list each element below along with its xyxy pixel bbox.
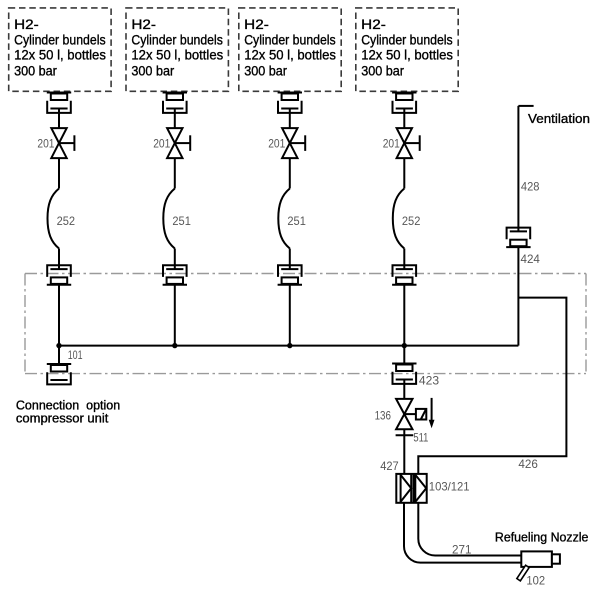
svg-text:511: 511 <box>413 431 428 445</box>
coupling (column 3 at boundary) <box>278 265 302 285</box>
valve 136 (actuated) <box>375 399 416 429</box>
svg-text:Cylinder bundels: Cylinder bundels <box>14 33 106 49</box>
wire: column 1 drop to manifold <box>58 285 60 346</box>
wire: coupling 423 to valve 136 <box>403 380 405 399</box>
hose 251 (bundle 2) <box>163 189 191 249</box>
coupling (column 4 at boundary) <box>392 265 416 285</box>
svg-text:101: 101 <box>68 348 83 362</box>
wire: line 426 (bypass to dispenser) <box>418 298 566 474</box>
refueling nozzle 102 body <box>521 551 560 567</box>
coupling 424 <box>506 228 540 266</box>
junction node (column 4) <box>402 343 407 348</box>
line label 427 <box>380 459 399 473</box>
svg-text:300 bar: 300 bar <box>131 63 174 79</box>
wire: valve 4 to hose <box>403 158 405 188</box>
wire: valve 136 to filter block (line 427) <box>403 429 405 474</box>
svg-text:428: 428 <box>521 180 540 194</box>
svg-text:201: 201 <box>37 136 54 150</box>
line label 426 <box>518 457 538 471</box>
junction node (column 3) <box>287 343 292 348</box>
tick mark / seat line 511 <box>396 434 414 436</box>
svg-text:H2-: H2- <box>244 17 269 33</box>
label 102 <box>526 574 545 588</box>
svg-text:251: 251 <box>287 214 306 228</box>
svg-text:102: 102 <box>526 574 545 588</box>
arrow (flow direction) at valve 136 <box>429 398 435 428</box>
wire: column 4 drop to manifold <box>403 285 405 346</box>
wire: valve 1 to hose <box>58 158 60 188</box>
manifold header line 101 <box>59 345 518 347</box>
wire: bundle 2 stem to valve <box>174 109 176 129</box>
coupling (column 1 at boundary) <box>47 265 71 285</box>
svg-text:424: 424 <box>521 252 541 266</box>
svg-text:426: 426 <box>518 457 538 471</box>
valve 201 (bundle 3) <box>268 128 305 158</box>
coupling (column 2 at boundary) <box>163 265 187 285</box>
svg-text:compressor unit: compressor unit <box>16 410 109 425</box>
svg-text:300 bar: 300 bar <box>14 63 57 79</box>
svg-text:H2-: H2- <box>131 17 156 33</box>
wire: column 2 drop to manifold <box>174 285 176 346</box>
wire: valve 2 to hose <box>174 158 176 188</box>
svg-text:423: 423 <box>419 374 440 388</box>
hose 252 (bundle 4) <box>393 189 421 249</box>
svg-text:300 bar: 300 bar <box>361 63 404 79</box>
svg-text:Ventilation: Ventilation <box>528 111 590 126</box>
node label 101 <box>68 348 83 362</box>
wire: valve 3 to hose <box>289 158 291 188</box>
text: Ventilation <box>528 111 590 126</box>
svg-text:300 bar: 300 bar <box>244 63 287 79</box>
ventilation outlet stub <box>518 105 533 107</box>
valve 201 (bundle 4) <box>383 128 420 158</box>
svg-text:271: 271 <box>452 542 472 556</box>
hose 271 outer line <box>404 503 521 563</box>
wire: hose 3 to coupling <box>289 249 291 270</box>
svg-text:12x 50 l, bottles: 12x 50 l, bottles <box>14 48 106 64</box>
coupling (bundle 1 outlet) <box>47 93 71 113</box>
coupling (bundle 2 outlet) <box>163 93 187 113</box>
svg-text:136: 136 <box>375 408 392 422</box>
text: connection option compressor unit <box>16 398 120 426</box>
refueling nozzle handle <box>517 565 529 581</box>
coupling (connection option compressor unit) <box>47 364 71 384</box>
svg-text:H2-: H2- <box>361 17 386 33</box>
wire: hose 1 to coupling <box>58 249 60 270</box>
wire: hose 2 to coupling <box>174 249 176 270</box>
junction node (column 1) <box>56 343 61 348</box>
system boundary (dash-dot chain rectangle) <box>25 274 586 374</box>
svg-text:Cylinder bundels: Cylinder bundels <box>361 33 453 49</box>
cylinder bundle box 4 (dashed) <box>356 8 458 91</box>
svg-text:252: 252 <box>57 214 76 228</box>
wire: manifold drop to coupling 423 <box>403 346 405 364</box>
label 511 <box>413 431 428 445</box>
coupling 423 <box>392 364 439 388</box>
cylinder bundle box 1 (dashed) <box>9 8 111 91</box>
coupling (bundle 4 outlet) <box>392 93 416 113</box>
wire: hose 4 to coupling <box>403 249 405 270</box>
svg-text:427: 427 <box>380 459 399 473</box>
wire: bundle 1 stem to valve <box>58 109 60 129</box>
svg-text:103/121: 103/121 <box>429 480 470 494</box>
hose label 271 <box>452 542 472 556</box>
cylinder bundle box 2 (dashed) <box>126 8 228 91</box>
hose 252 (bundle 1) <box>48 189 76 249</box>
cylinder bundle box 3 (dashed) <box>239 8 341 91</box>
wire: manifold drop to compressor connection <box>58 346 60 364</box>
svg-text:12x 50 l, bottles: 12x 50 l, bottles <box>131 48 223 64</box>
wire: column 3 drop to manifold <box>289 285 291 346</box>
svg-text:Refueling Nozzle: Refueling Nozzle <box>495 529 589 544</box>
wire: bundle 4 stem to valve <box>403 109 405 129</box>
svg-text:Cylinder bundels: Cylinder bundels <box>131 33 223 49</box>
wire: bundle 3 stem to valve <box>289 109 291 129</box>
svg-text:201: 201 <box>268 136 285 150</box>
svg-text:252: 252 <box>402 214 421 228</box>
coupling (bundle 3 outlet) <box>278 93 302 113</box>
line label 428 <box>521 180 540 194</box>
wire: ventilation line 428 <box>517 106 519 232</box>
svg-text:Cylinder bundels: Cylinder bundels <box>244 33 336 49</box>
text: Refueling Nozzle <box>495 529 589 544</box>
svg-text:201: 201 <box>383 136 400 150</box>
check valve block 103/121 <box>396 474 470 503</box>
wire: ventilation line below 424 to manifold <box>517 247 519 346</box>
hose 251 (bundle 3) <box>278 189 306 249</box>
svg-text:12x 50 l, bottles: 12x 50 l, bottles <box>244 48 336 64</box>
svg-text:201: 201 <box>153 136 170 150</box>
junction node (column 2) <box>172 343 177 348</box>
svg-text:12x 50 l, bottles: 12x 50 l, bottles <box>361 48 453 64</box>
svg-text:251: 251 <box>172 214 191 228</box>
svg-text:H2-: H2- <box>14 17 39 33</box>
actuator (solenoid) of valve 136 <box>416 409 426 420</box>
valve 201 (bundle 1) <box>37 128 74 158</box>
valve 201 (bundle 2) <box>153 128 190 158</box>
hose 271 inner line <box>418 503 521 556</box>
